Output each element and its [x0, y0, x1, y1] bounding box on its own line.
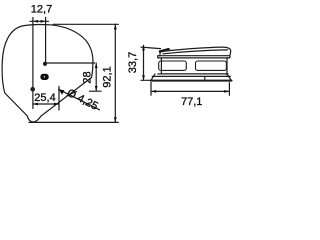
extension line bottom of 28 [90, 90, 102, 92]
dimension 28 line [95, 63, 97, 91]
arrow up 92,1 [114, 24, 117, 29]
extension line right of 25,4 (hole 2 axis) [58, 87, 60, 111]
dimension 12,7 line [30, 20, 49, 22]
extension line 77,1 right [228, 83, 230, 96]
dimension 33,7 line [143, 45, 145, 80]
dimension 77,1 line [151, 90, 229, 92]
svg-text:25,4: 25,4 [34, 92, 55, 104]
svg-text:33,7: 33,7 [127, 52, 139, 73]
leader arrowhead [59, 89, 65, 94]
arrow down 33,7 [142, 75, 145, 80]
leader line for hole dia [59, 89, 100, 110]
arrow left of 12,7 [33, 20, 38, 23]
lamp center dot [43, 62, 47, 66]
dimension 92,1 line [114, 24, 116, 122]
top extension line 33,7 [141, 47, 161, 49]
base screw tick [204, 76, 206, 79]
extension line 77,1 left [150, 83, 152, 96]
rim left cap [157, 56, 159, 58]
dome inner lens line [163, 50, 228, 54]
arrow left 25,4 [33, 103, 38, 106]
base top line [152, 75, 230, 77]
center horizontal line from dot [46, 62, 95, 64]
bottom extension line [29, 121, 118, 123]
arrow right of 12,7 [41, 20, 46, 23]
body right edge [226, 58, 228, 75]
top extension line [53, 23, 118, 25]
svg-text:28: 28 [82, 71, 94, 83]
slot pinhole [44, 76, 45, 77]
hole 1 stub below [32, 91, 34, 109]
base right edge [227, 75, 231, 81]
dome left edge [159, 52, 161, 56]
arrow up 33,7 [142, 45, 145, 50]
lens tab wedge [160, 49, 169, 51]
dimension 25,4 line [33, 103, 59, 105]
left side panel [159, 61, 187, 70]
base left edge [151, 74, 155, 81]
centerline right (lamp axis) [45, 18, 47, 63]
svg-text:77,1: 77,1 [181, 96, 202, 108]
rim band top [158, 55, 230, 57]
body bottom line [158, 73, 228, 75]
rim band bottom [158, 57, 230, 59]
arrow right 25,4 [54, 103, 59, 106]
extension line bottom 33,7 [141, 79, 152, 81]
svg-text:12,7: 12,7 [31, 4, 52, 16]
arrow down 92,1 [114, 117, 117, 122]
arrow up 28 [95, 63, 98, 68]
base bottom thick line [151, 80, 232, 82]
arrow down 28 [95, 86, 98, 91]
housing outline [2, 24, 93, 122]
centerline left (hole 1 vertical) [32, 18, 34, 88]
body left edge [160, 58, 162, 74]
dome top outer line [160, 47, 230, 56]
hole 1 circle [31, 88, 34, 91]
arrow left 77,1 [151, 90, 156, 93]
svg-text:92,1: 92,1 [102, 66, 114, 87]
rim right cap [228, 56, 231, 58]
right side panel [196, 61, 227, 70]
arrow right 77,1 [224, 90, 229, 93]
slot (dark) [40, 74, 48, 80]
